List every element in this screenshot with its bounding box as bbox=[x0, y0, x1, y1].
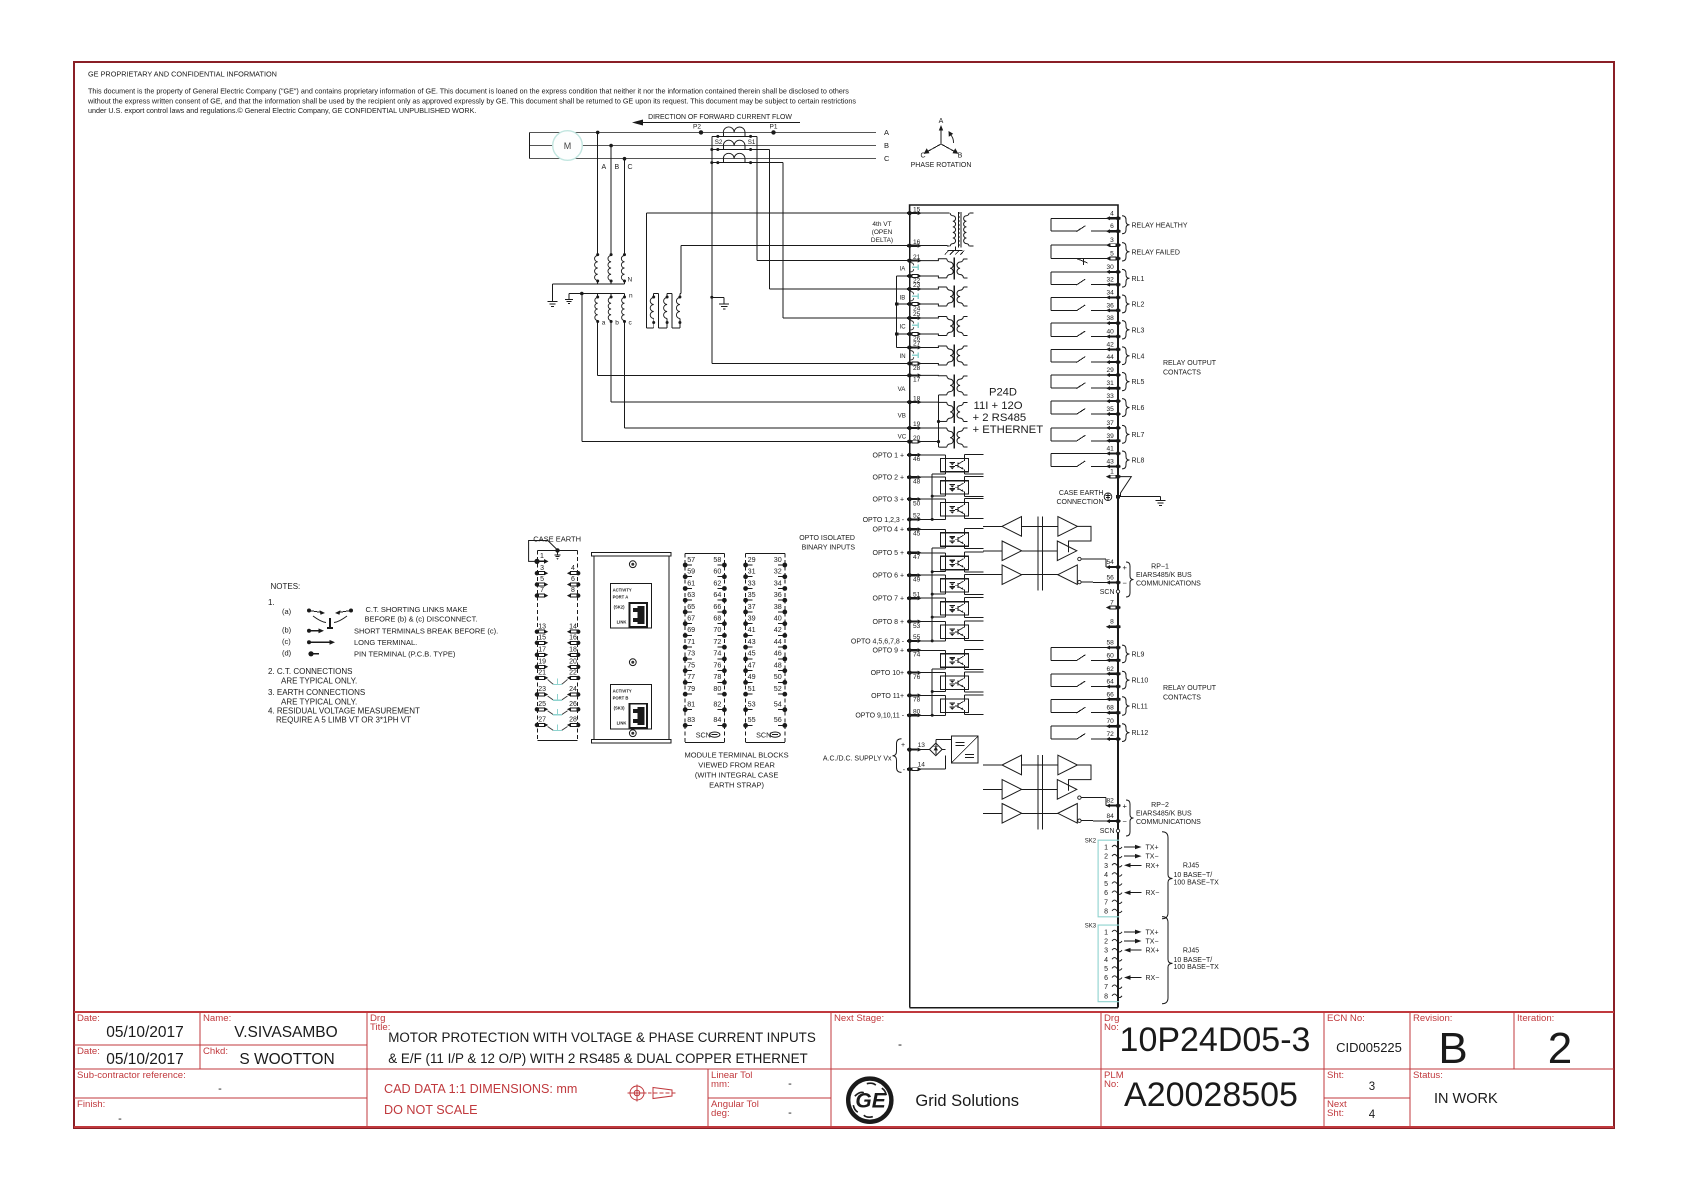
buffer right mid bbox=[1057, 541, 1077, 561]
transformer VC bbox=[919, 427, 968, 449]
svg-text:A.C./D.C. SUPPLY Vx: A.C./D.C. SUPPLY Vx bbox=[823, 756, 892, 763]
svg-text:46: 46 bbox=[774, 649, 782, 658]
SK3 connector box bbox=[1098, 925, 1119, 1002]
svg-text:EIARS485/K BUS: EIARS485/K BUS bbox=[1136, 572, 1192, 579]
relay contact RL1 terminals 30/32 bbox=[1051, 264, 1144, 287]
VT primary winding x=624.5 bbox=[623, 253, 626, 256]
svg-text:REQUIRE A 5 LIMB VT OR 3: REQUIRE A 5 LIMB VT OR 3*1PH VT bbox=[276, 716, 411, 725]
svg-text:TX+: TX+ bbox=[1146, 929, 1159, 936]
svg-text:16: 16 bbox=[913, 239, 921, 246]
wire terminal 15 to open delta bbox=[647, 212, 910, 214]
svg-text:58: 58 bbox=[1106, 640, 1114, 647]
svg-text:80: 80 bbox=[713, 684, 721, 693]
svg-text:A: A bbox=[884, 128, 889, 137]
svg-text:32: 32 bbox=[1106, 277, 1114, 284]
wire CT return links 22-24-26-27 bbox=[897, 275, 908, 277]
CT shorting link bbox=[912, 354, 919, 356]
buffer transmit left low bbox=[1002, 804, 1022, 824]
RS485 isolation barrier bbox=[1037, 517, 1039, 591]
open delta winding chain bbox=[647, 213, 682, 328]
optocoupler input bbox=[919, 498, 946, 500]
svg-text:(SK2): (SK2) bbox=[614, 605, 626, 610]
svg-text:3. EARTH CONNECTIONS: 3. EARTH CONNECTIONS bbox=[268, 688, 365, 697]
svg-text:22: 22 bbox=[569, 670, 577, 677]
terminal 49 OPTO 6 + bbox=[873, 573, 922, 584]
svg-text:60: 60 bbox=[713, 567, 721, 576]
terminal 8 bbox=[1106, 619, 1121, 629]
svg-text:6: 6 bbox=[571, 576, 575, 583]
svg-text:36: 36 bbox=[1106, 302, 1114, 309]
svg-text:3: 3 bbox=[1369, 1081, 1375, 1093]
CT shorting link bbox=[912, 324, 919, 326]
svg-text:SCN: SCN bbox=[1100, 828, 1115, 835]
svg-text:4: 4 bbox=[1104, 957, 1108, 964]
svg-text:V.SIVASAMBO: V.SIVASAMBO bbox=[234, 1024, 337, 1041]
SK3 RJ45 label bbox=[1162, 917, 1173, 1004]
svg-text:IN WORK: IN WORK bbox=[1434, 1091, 1498, 1107]
buffer transmit left mid bbox=[1002, 541, 1022, 561]
svg-text:7: 7 bbox=[540, 587, 544, 594]
svg-text:37: 37 bbox=[748, 602, 756, 611]
svg-text:50: 50 bbox=[774, 672, 782, 681]
svg-text:OPTO 2 +: OPTO 2 + bbox=[873, 475, 905, 482]
svg-text:RELAY HEALTHY: RELAY HEALTHY bbox=[1132, 222, 1188, 229]
svg-text:RP−2: RP−2 bbox=[1151, 802, 1169, 809]
svg-text:TX−: TX− bbox=[1146, 939, 1159, 946]
svg-text:53: 53 bbox=[748, 700, 756, 709]
wire phase C bus bbox=[530, 158, 877, 160]
relay case right strip bbox=[1117, 218, 1119, 1007]
svg-text:B: B bbox=[615, 164, 620, 171]
svg-text:+ ETHERNET: + ETHERNET bbox=[973, 424, 1044, 436]
svg-text:4: 4 bbox=[1104, 872, 1108, 879]
svg-text:33: 33 bbox=[1106, 393, 1114, 400]
terminal 47 OPTO 5 + bbox=[873, 550, 922, 561]
svg-text:RL5: RL5 bbox=[1132, 379, 1145, 386]
svg-text:IC: IC bbox=[900, 325, 907, 331]
svg-text:B: B bbox=[1438, 1024, 1467, 1073]
svg-text:4: 4 bbox=[571, 565, 575, 572]
terminal 55 OPTO 4,5,6,7,8 - bbox=[851, 634, 922, 645]
svg-text:-: - bbox=[788, 1078, 792, 1090]
svg-text:39: 39 bbox=[748, 614, 756, 623]
svg-text:RL1: RL1 bbox=[1132, 276, 1145, 283]
svg-text:62: 62 bbox=[1106, 666, 1114, 673]
svg-text:1: 1 bbox=[540, 553, 544, 560]
svg-text:6: 6 bbox=[1110, 223, 1114, 230]
svg-text:1.: 1. bbox=[268, 598, 275, 607]
svg-text:Chkd:: Chkd: bbox=[203, 1046, 228, 1057]
wire phase A bus bbox=[530, 131, 877, 133]
svg-text:3: 3 bbox=[1110, 237, 1114, 244]
wire terminal 1 to case earth node bbox=[1121, 477, 1132, 497]
terminal 25 bbox=[907, 311, 922, 320]
buffer right low receive bbox=[1058, 565, 1078, 585]
terminal 24 bbox=[907, 302, 922, 312]
svg-text:RELAY OUTPUT: RELAY OUTPUT bbox=[1163, 685, 1217, 692]
VT secondary winding b bbox=[610, 294, 612, 298]
svg-text:70: 70 bbox=[1106, 718, 1114, 725]
svg-text:LONG TERMINAL.: LONG TERMINAL. bbox=[354, 638, 417, 647]
svg-text:42: 42 bbox=[1106, 341, 1114, 348]
svg-text:28: 28 bbox=[569, 717, 577, 724]
svg-text:27: 27 bbox=[913, 341, 921, 348]
supply brace bbox=[893, 739, 902, 773]
svg-text:11I + 12O: 11I + 12O bbox=[974, 400, 1023, 412]
svg-text:78: 78 bbox=[713, 672, 721, 681]
block terminals 5/6 bbox=[535, 576, 549, 587]
svg-text:Finish:: Finish: bbox=[77, 1099, 105, 1110]
svg-text:45: 45 bbox=[913, 531, 921, 538]
svg-text:35: 35 bbox=[748, 590, 756, 599]
svg-text:4th VT: 4th VT bbox=[872, 221, 891, 228]
optocoupler input bbox=[919, 694, 946, 696]
wire CT earth tap bbox=[710, 296, 713, 299]
svg-text:-: - bbox=[788, 1107, 792, 1119]
wire 13 to rectifier bbox=[919, 749, 930, 751]
case earth connection symbol bbox=[1104, 493, 1112, 501]
transformer IA bbox=[919, 257, 968, 279]
svg-text:OPTO 11+: OPTO 11+ bbox=[871, 693, 904, 700]
svg-text:ARE TYPICAL ONLY.: ARE TYPICAL ONLY. bbox=[281, 677, 357, 686]
terminal 27 bbox=[907, 341, 922, 350]
svg-text:23: 23 bbox=[538, 686, 546, 693]
svg-text:10 BASE−T/: 10 BASE−T/ bbox=[1174, 957, 1213, 964]
svg-text:-: - bbox=[898, 1037, 902, 1051]
SK2 connector box bbox=[1098, 840, 1119, 917]
svg-text:C.T. SHORTING LINKS MAKE: C.T. SHORTING LINKS MAKE bbox=[366, 605, 468, 614]
svg-text:RL6: RL6 bbox=[1132, 405, 1145, 412]
svg-text:72: 72 bbox=[713, 637, 721, 646]
wire 14 to rectifier bbox=[919, 768, 946, 770]
wire VT a to terminal 17 bbox=[597, 322, 599, 376]
svg-text:RX−: RX− bbox=[1146, 975, 1160, 982]
svg-text:25: 25 bbox=[538, 701, 546, 708]
block terminals 21/22 bbox=[535, 670, 549, 681]
RP-2 RS485 port bbox=[983, 755, 1201, 836]
svg-text:Sht:: Sht: bbox=[1327, 1108, 1344, 1119]
svg-text:(a): (a) bbox=[282, 607, 292, 616]
terminal 18 bbox=[907, 395, 922, 404]
relay case outline bbox=[910, 205, 1118, 218]
wire rectifier to converter bbox=[935, 740, 937, 744]
svg-text:74: 74 bbox=[713, 649, 721, 658]
optocoupler input bbox=[919, 552, 946, 554]
svg-text:18: 18 bbox=[569, 646, 577, 653]
svg-text:24: 24 bbox=[569, 686, 577, 693]
svg-text:31: 31 bbox=[748, 567, 756, 576]
svg-text:1: 1 bbox=[1104, 929, 1108, 936]
svg-text:S1: S1 bbox=[748, 139, 756, 146]
svg-text:19: 19 bbox=[913, 421, 921, 428]
optocoupler input bbox=[919, 574, 946, 576]
wire CT A S1 to terminal 21 bbox=[756, 136, 758, 260]
svg-text:2: 2 bbox=[1104, 939, 1108, 946]
svg-text:2. C.T. CONNECTIONS: 2. C.T. CONNECTIONS bbox=[268, 667, 352, 676]
svg-text:59: 59 bbox=[687, 567, 695, 576]
svg-text:A20028505: A20028505 bbox=[1124, 1076, 1298, 1114]
svg-text:SK3: SK3 bbox=[1085, 924, 1097, 930]
svg-text:3: 3 bbox=[540, 565, 544, 572]
svg-text:68: 68 bbox=[713, 614, 721, 623]
svg-text:Next Stage:: Next Stage: bbox=[834, 1013, 884, 1024]
svg-text:05/10/2017: 05/10/2017 bbox=[106, 1051, 184, 1068]
wire terminal 16 to open delta bbox=[681, 245, 910, 247]
svg-text:RX−: RX− bbox=[1146, 890, 1160, 897]
ethernet PORT B jack bbox=[611, 684, 652, 728]
terminal 22 bbox=[907, 274, 922, 284]
node P2 bbox=[699, 130, 703, 134]
node n junction bbox=[580, 292, 584, 296]
wire phase B tap to VT bbox=[609, 144, 613, 148]
svg-text:a: a bbox=[602, 320, 606, 327]
svg-text:8: 8 bbox=[1104, 908, 1108, 915]
svg-text:+ 2 RS485: + 2 RS485 bbox=[973, 412, 1027, 424]
svg-text:VB: VB bbox=[898, 413, 906, 420]
svg-text:OPTO 9,10,11 -: OPTO 9,10,11 - bbox=[855, 713, 904, 720]
block terminals 7/8 bbox=[535, 587, 549, 598]
svg-text:53: 53 bbox=[913, 623, 921, 630]
svg-text:EARTH STRAP): EARTH STRAP) bbox=[709, 781, 764, 790]
rs485 interconnect wires bbox=[1022, 764, 1058, 766]
svg-text:BEFORE (b) & (c) DISCONNECT.: BEFORE (b) & (c) DISCONNECT. bbox=[365, 615, 478, 624]
terminal 1 case earth bbox=[1106, 469, 1121, 479]
terminal 74 OPTO 9 + bbox=[873, 648, 922, 659]
CT phase B bbox=[712, 140, 770, 151]
svg-text:16: 16 bbox=[569, 634, 577, 641]
svg-text:80: 80 bbox=[913, 709, 921, 716]
wire phase B bus bbox=[530, 145, 877, 147]
svg-text:14: 14 bbox=[918, 762, 926, 769]
svg-text:39: 39 bbox=[1106, 433, 1114, 440]
module terminal block 29-56 bbox=[743, 553, 787, 742]
CT shorting earth link bbox=[548, 694, 568, 700]
svg-text:OPTO 9 +: OPTO 9 + bbox=[873, 648, 905, 655]
GE logo bbox=[848, 1079, 891, 1122]
svg-text:78: 78 bbox=[913, 697, 921, 704]
wire CT common S2 to terminal 28 bbox=[711, 136, 713, 363]
buffer transmit left low bbox=[1002, 565, 1022, 585]
notes section bbox=[268, 582, 498, 725]
terminal 19 bbox=[907, 421, 922, 430]
svg-text:RX+: RX+ bbox=[1146, 863, 1160, 870]
terminal 7 bbox=[1106, 600, 1121, 610]
svg-text:48: 48 bbox=[774, 660, 782, 669]
svg-text:61: 61 bbox=[687, 578, 695, 587]
CT shorting link bbox=[912, 295, 919, 297]
svg-text:-: - bbox=[118, 1113, 122, 1125]
svg-text:C: C bbox=[884, 154, 890, 163]
wire CT C S1 to terminal 25 bbox=[782, 163, 784, 318]
svg-text:7: 7 bbox=[1104, 899, 1108, 906]
svg-text:No:: No: bbox=[1104, 1079, 1119, 1090]
svg-text:MODULE TERMINAL BLOCKS: MODULE TERMINAL BLOCKS bbox=[684, 751, 788, 760]
optocoupler input bbox=[919, 672, 946, 674]
svg-text:DIRECTION OF FORWARD CURREN: DIRECTION OF FORWARD CURRENT FLOW bbox=[648, 114, 792, 121]
svg-text:70: 70 bbox=[713, 625, 721, 634]
svg-text:77: 77 bbox=[687, 672, 695, 681]
RS485 isolation barrier bbox=[1037, 755, 1039, 829]
svg-text:56: 56 bbox=[774, 715, 782, 724]
svg-text:1: 1 bbox=[1104, 845, 1108, 852]
block terminals 27/28 bbox=[535, 717, 549, 728]
svg-text:21: 21 bbox=[538, 670, 546, 677]
svg-text:Iteration:: Iteration: bbox=[1517, 1013, 1554, 1024]
optocoupler input bbox=[919, 528, 946, 530]
svg-text:7: 7 bbox=[1104, 984, 1108, 991]
terminal 28 bbox=[907, 361, 922, 371]
svg-text:13: 13 bbox=[918, 742, 926, 749]
case earth strap bbox=[529, 541, 561, 562]
svg-text:2: 2 bbox=[1104, 854, 1108, 861]
svg-text:23: 23 bbox=[913, 282, 921, 289]
optocoupler input bbox=[919, 476, 946, 478]
terminal 52 OPTO 1,2,3 - bbox=[863, 513, 922, 524]
svg-text:5: 5 bbox=[540, 576, 544, 583]
svg-text:21: 21 bbox=[913, 254, 921, 261]
svg-text:58: 58 bbox=[713, 555, 721, 564]
motor M bbox=[553, 131, 583, 161]
svg-text:66: 66 bbox=[1106, 691, 1114, 698]
relay contact RL3 terminals 38/40 bbox=[1051, 315, 1144, 339]
terminal 14 supply - bbox=[903, 762, 926, 775]
ethernet port panel bbox=[592, 552, 672, 743]
block terminals 13/14 bbox=[535, 623, 549, 634]
svg-text:No:: No: bbox=[1104, 1022, 1119, 1033]
svg-text:41: 41 bbox=[1106, 446, 1114, 453]
svg-text:47: 47 bbox=[748, 660, 756, 669]
RP-1 RS485 port bbox=[983, 517, 1201, 597]
terminal 23 bbox=[907, 282, 922, 291]
svg-text:Date:: Date: bbox=[77, 1013, 100, 1024]
svg-text:(d): (d) bbox=[282, 649, 292, 658]
svg-text:without the express written co: without the express written consent of G… bbox=[87, 97, 856, 106]
svg-text:26: 26 bbox=[569, 701, 577, 708]
svg-text:RP−1: RP−1 bbox=[1151, 564, 1169, 571]
relay contact RELAY FAILED terminals 3/5 bbox=[1051, 237, 1180, 265]
svg-text:CASE EARTH: CASE EARTH bbox=[533, 535, 581, 544]
svg-text:(OPEN: (OPEN bbox=[872, 229, 893, 236]
svg-text:NOTES:: NOTES: bbox=[271, 582, 301, 591]
optocoupler input bbox=[919, 621, 946, 623]
svg-text:ARE TYPICAL ONLY.: ARE TYPICAL ONLY. bbox=[281, 698, 357, 707]
svg-text:13: 13 bbox=[538, 623, 546, 630]
svg-text:Date:: Date: bbox=[77, 1046, 100, 1057]
svg-text:49: 49 bbox=[913, 577, 921, 584]
svg-text:GE PROPRIETARY AND CONFIDENTIA: GE PROPRIETARY AND CONFIDENTIAL INFORMAT… bbox=[88, 70, 277, 79]
svg-text:41: 41 bbox=[748, 625, 756, 634]
svg-text:68: 68 bbox=[1106, 705, 1114, 712]
svg-text:40: 40 bbox=[774, 614, 782, 623]
block terminal 1 bbox=[534, 553, 548, 564]
svg-text:44: 44 bbox=[1106, 354, 1114, 361]
svg-text:RELAY OUTPUT: RELAY OUTPUT bbox=[1163, 360, 1217, 367]
svg-text:72: 72 bbox=[1106, 731, 1114, 738]
svg-text:CONTACTS: CONTACTS bbox=[1163, 695, 1201, 702]
case earth terminal block bbox=[533, 535, 581, 741]
block terminals 17/18 bbox=[535, 646, 549, 657]
svg-text:65: 65 bbox=[687, 602, 695, 611]
svg-text:2: 2 bbox=[1548, 1024, 1572, 1073]
terminal 17 bbox=[907, 373, 922, 383]
ground CT common bbox=[719, 303, 729, 305]
svg-text:33: 33 bbox=[748, 578, 756, 587]
svg-text:48: 48 bbox=[913, 479, 921, 486]
relay contact RL2 terminals 34/36 bbox=[1051, 290, 1144, 313]
svg-text:P2: P2 bbox=[693, 124, 701, 131]
svg-text:15: 15 bbox=[913, 206, 921, 213]
svg-text:5: 5 bbox=[1104, 881, 1108, 888]
svg-text:Grid Solutions: Grid Solutions bbox=[915, 1092, 1019, 1110]
svg-text:−: − bbox=[1123, 817, 1128, 826]
terminal 46 OPTO 1 + bbox=[873, 452, 922, 463]
svg-text:RX+: RX+ bbox=[1146, 948, 1160, 955]
svg-text:3: 3 bbox=[1104, 863, 1108, 870]
svg-text:RL11: RL11 bbox=[1132, 704, 1148, 711]
svg-text:82: 82 bbox=[713, 700, 721, 709]
svg-text:6: 6 bbox=[1104, 975, 1108, 982]
terminal 21 bbox=[907, 254, 922, 263]
svg-text:57: 57 bbox=[687, 555, 695, 564]
svg-text:VA: VA bbox=[898, 386, 907, 393]
svg-text:IA: IA bbox=[900, 267, 906, 273]
svg-text:+: + bbox=[1123, 563, 1128, 572]
svg-text:56: 56 bbox=[1106, 575, 1114, 582]
wire CT B S1 to terminal 23 bbox=[769, 150, 771, 290]
svg-text:10 BASE−T/: 10 BASE−T/ bbox=[1174, 872, 1213, 879]
wire VT secondary neutral n bbox=[569, 293, 625, 295]
svg-text:A: A bbox=[602, 164, 607, 171]
svg-text:B: B bbox=[958, 153, 963, 160]
terminal 15 bbox=[907, 206, 922, 215]
svg-text:CASE EARTH: CASE EARTH bbox=[1059, 490, 1104, 497]
CT shorting earth link bbox=[548, 678, 568, 684]
svg-text:b: b bbox=[615, 320, 619, 327]
svg-text:−: − bbox=[1123, 579, 1128, 588]
svg-text:20: 20 bbox=[913, 435, 921, 442]
svg-text:69: 69 bbox=[687, 625, 695, 634]
transformer VB bbox=[919, 401, 968, 423]
terminal 20 bbox=[907, 435, 922, 444]
svg-text:54: 54 bbox=[1106, 559, 1114, 566]
svg-text:VIEWED FROM REAR: VIEWED FROM REAR bbox=[698, 761, 775, 770]
svg-text:84: 84 bbox=[1106, 813, 1114, 820]
svg-text:C: C bbox=[920, 153, 925, 160]
opto group minus bus bbox=[931, 548, 933, 641]
svg-text:LINK: LINK bbox=[617, 720, 627, 725]
svg-text:82: 82 bbox=[1106, 798, 1114, 805]
svg-text:(c): (c) bbox=[282, 637, 291, 646]
svg-text:N: N bbox=[628, 277, 633, 284]
svg-text:52: 52 bbox=[913, 513, 921, 520]
svg-text:RL4: RL4 bbox=[1132, 353, 1145, 360]
transformer VA bbox=[919, 374, 968, 396]
buffer receive left bbox=[1002, 517, 1022, 537]
terminal 51 OPTO 7 + bbox=[873, 591, 922, 602]
relay contact RL6 terminals 33/35 bbox=[1051, 393, 1144, 416]
svg-text:75: 75 bbox=[687, 660, 695, 669]
svg-text:RL12: RL12 bbox=[1132, 730, 1149, 737]
block terminals 25/26 bbox=[535, 701, 549, 712]
svg-text:PHASE ROTATION: PHASE ROTATION bbox=[911, 162, 972, 169]
svg-text:81: 81 bbox=[687, 700, 695, 709]
svg-text:under U.S. export control laws: under U.S. export control laws and regul… bbox=[88, 106, 476, 115]
svg-text:51: 51 bbox=[748, 684, 756, 693]
buffer transmit left mid bbox=[1002, 780, 1022, 800]
VT primary winding x=611.1 bbox=[610, 253, 613, 256]
svg-text:OPTO ISOLATED: OPTO ISOLATED bbox=[799, 535, 855, 542]
svg-text:25: 25 bbox=[913, 311, 921, 318]
